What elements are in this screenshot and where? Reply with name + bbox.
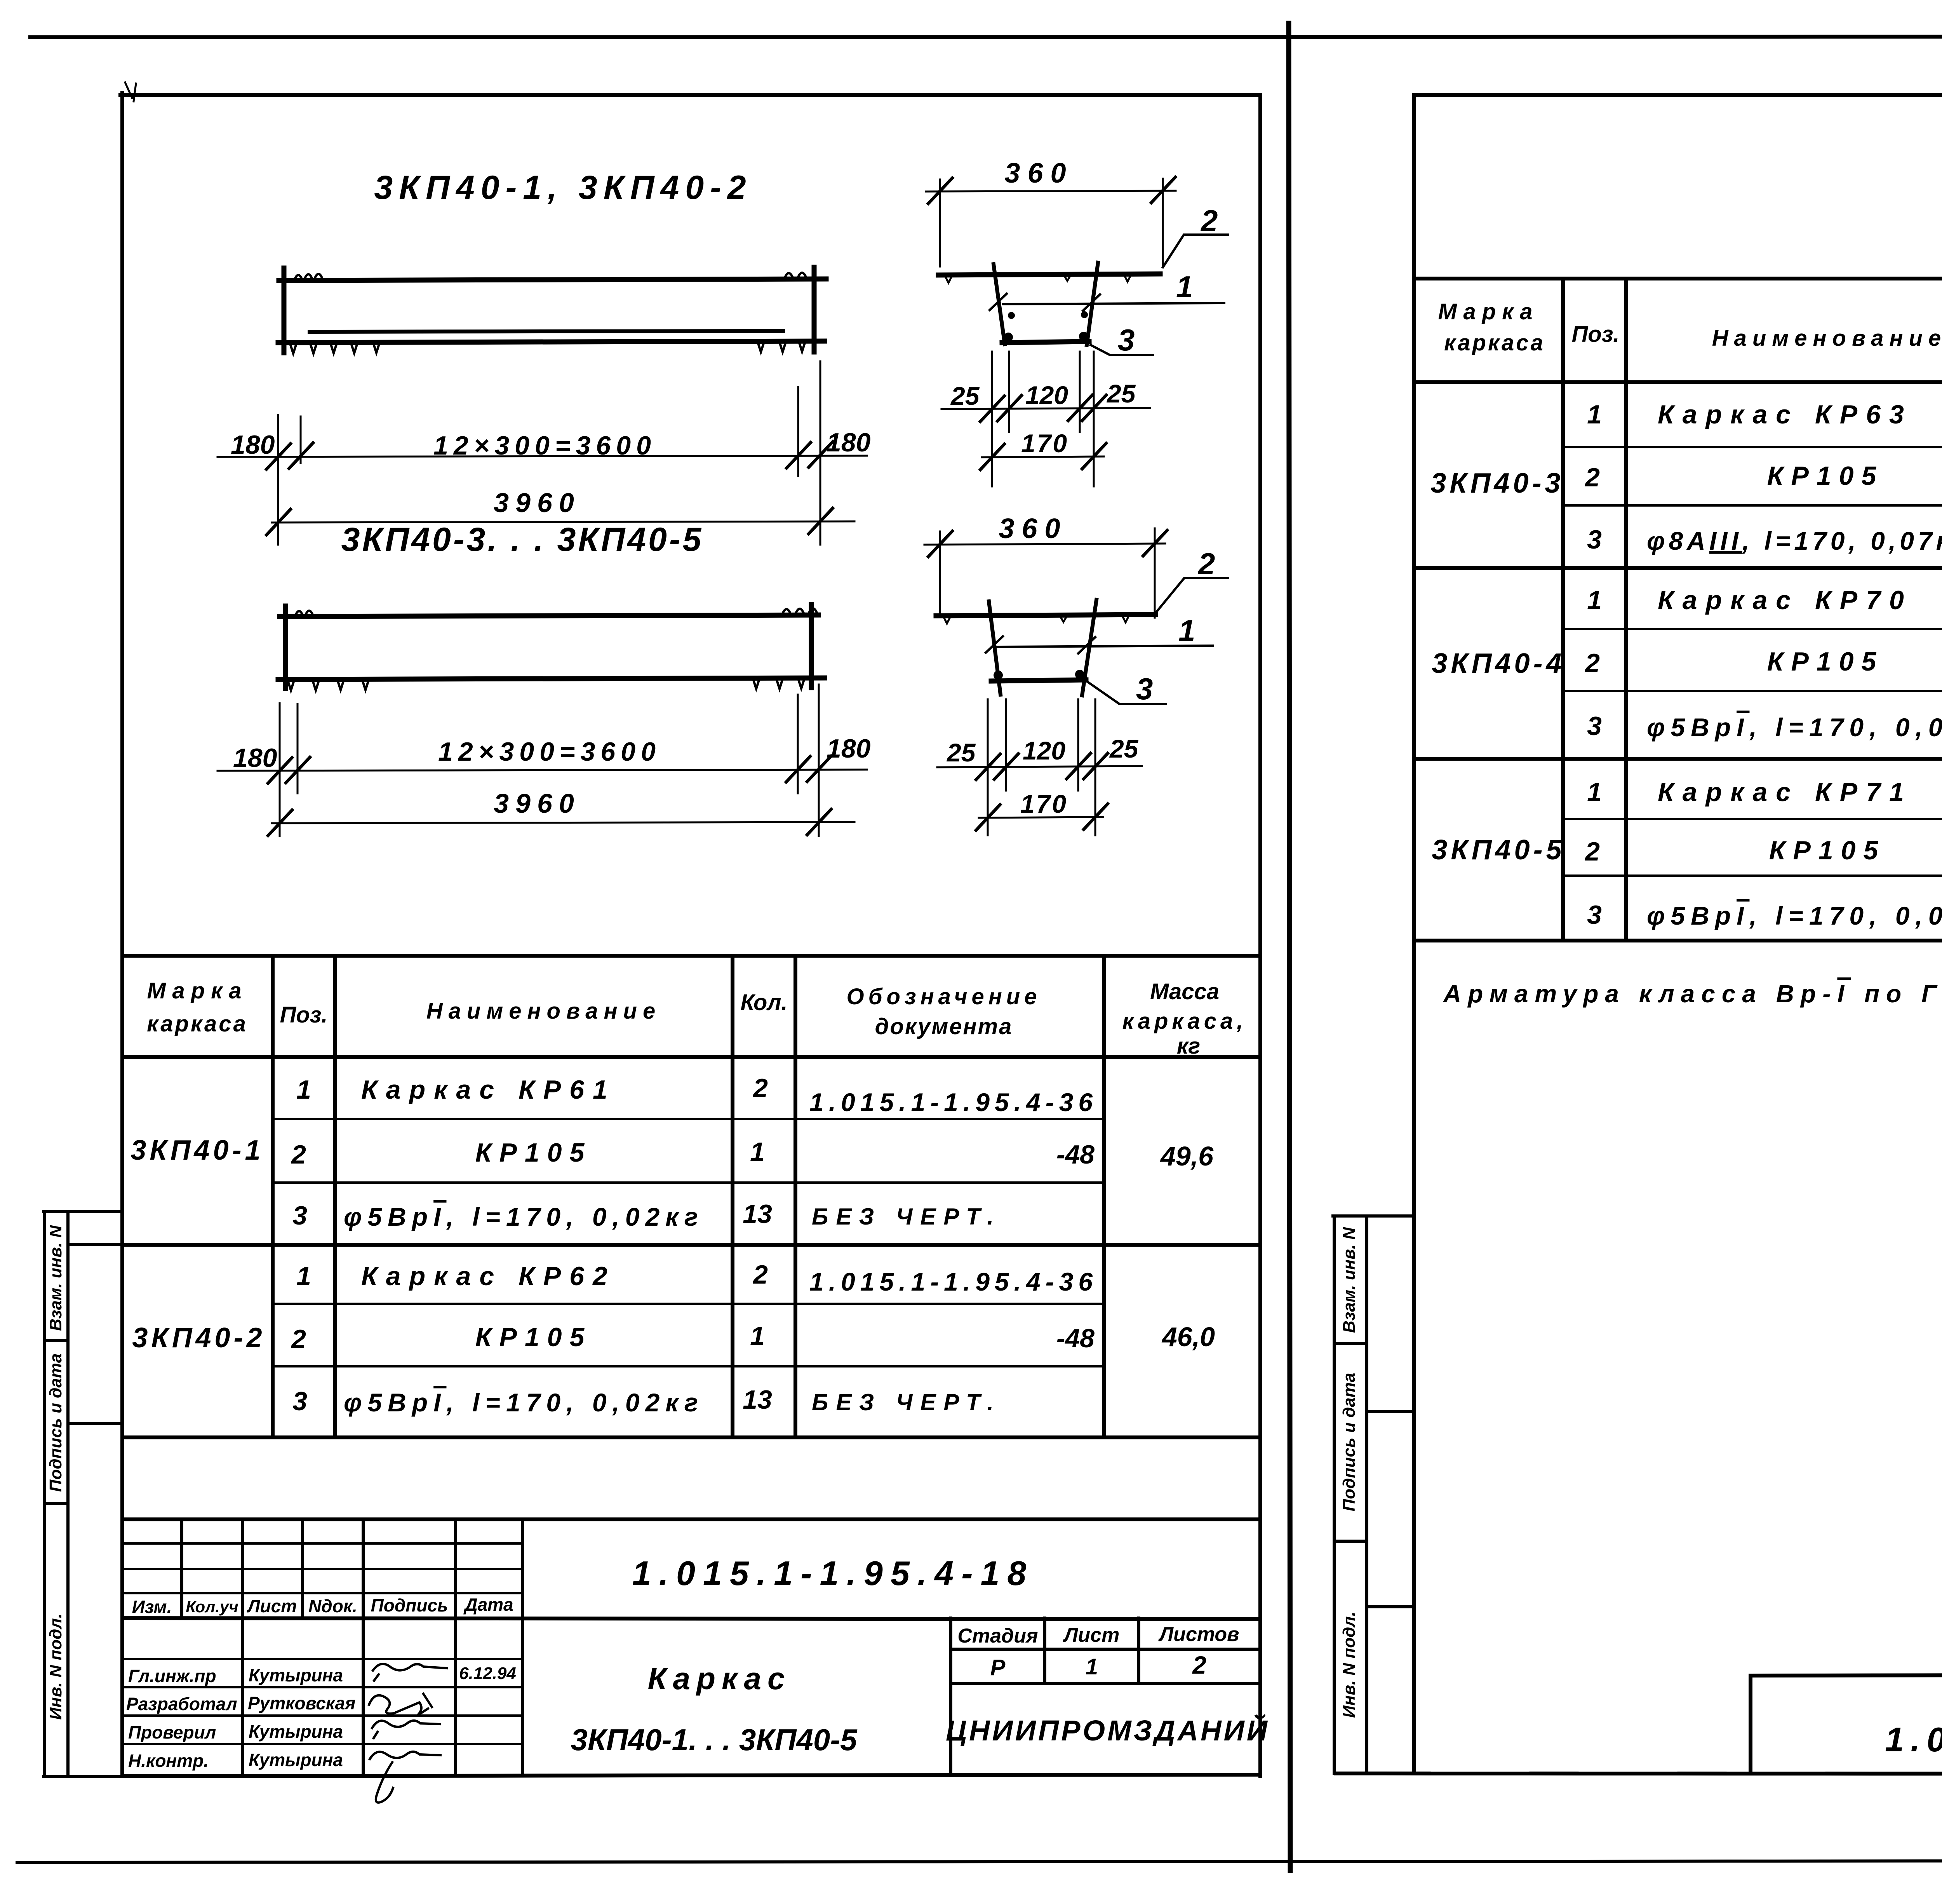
beam2 bottom chord [278, 678, 825, 679]
svg-text:Гл.инж.пр: Гл.инж.пр [128, 1666, 216, 1686]
leg hatch ticks [986, 636, 1095, 653]
svg-text:Кутырина: Кутырина [249, 1721, 343, 1742]
label 1 leader [1003, 303, 1224, 304]
svg-text:Марка: Марка [1438, 299, 1538, 324]
svg-text:Каркас КР61: Каркас КР61 [361, 1075, 616, 1104]
svg-text:1.015.1-1.95.4-18: 1.015.1-1.95.4-18 [1885, 1720, 1942, 1759]
svg-text:180: 180 [231, 430, 275, 460]
right table inner row lines [1563, 447, 1942, 876]
weld bumps on top chord [295, 273, 806, 278]
svg-text:КР105: КР105 [475, 1322, 592, 1352]
svg-text:1: 1 [1178, 613, 1195, 648]
svg-text:Каркас КР70: Каркас КР70 [1658, 585, 1912, 615]
svg-text:2: 2 [752, 1073, 768, 1103]
svg-text:1: 1 [1587, 777, 1602, 807]
left margin strip boxes [44, 1211, 122, 1777]
svg-text:Инв. N подл.: Инв. N подл. [1340, 1611, 1359, 1718]
svg-text:Поз.: Поз. [280, 1002, 328, 1028]
svg-text:документа: документа [875, 1014, 1013, 1039]
svg-text:Марка: Марка [147, 978, 247, 1003]
svg-text:3960: 3960 [494, 488, 581, 518]
section1 flange weld marks [945, 275, 1131, 283]
weld bumps on beam2 top chord [296, 608, 816, 614]
svg-text:Рутковская: Рутковская [248, 1693, 355, 1713]
svg-text:1: 1 [1587, 585, 1602, 615]
svg-text:12×300=3600: 12×300=3600 [438, 737, 661, 766]
svg-text:3КП40-1: 3КП40-1 [131, 1135, 264, 1166]
beam elevation ЗКП40-3..5: top chord [280, 615, 818, 617]
svg-text:кг: кг [1177, 1033, 1200, 1059]
section1 dim line 25|120|25 [941, 408, 1150, 409]
svg-text:2: 2 [1200, 204, 1218, 238]
section2 bottom chord (pos.3) [991, 680, 1086, 681]
section1 dim line 360 [926, 191, 1176, 192]
svg-text:Nдок.: Nдок. [308, 1596, 357, 1616]
svg-text:Наименование: Наименование [426, 998, 661, 1024]
svg-text:2: 2 [752, 1260, 768, 1289]
svg-text:Каркас КР63: Каркас КР63 [1658, 400, 1912, 429]
svg-text:φ8АIII, l=170, 0,07кг: φ8АIII, l=170, 0,07кг [1647, 526, 1942, 555]
svg-text:2: 2 [1584, 648, 1600, 678]
svg-text:Р: Р [990, 1655, 1006, 1680]
svg-text:2: 2 [1584, 463, 1600, 492]
svg-text:170: 170 [1020, 789, 1068, 818]
leg hatch ticks [990, 294, 1100, 311]
svg-text:БЕЗ ЧЕРТ.: БЕЗ ЧЕРТ. [812, 1389, 1001, 1415]
svg-text:Каркас: Каркас [647, 1661, 791, 1696]
svg-text:Поз.: Поз. [1572, 322, 1620, 347]
svg-text:1.015.1-1.95.4-36: 1.015.1-1.95.4-36 [809, 1267, 1098, 1296]
svg-text:3КП40-5: 3КП40-5 [1432, 834, 1565, 866]
svg-text:3КП40-3: 3КП40-3 [1430, 468, 1564, 499]
section2 right leg (pos.1) [1082, 600, 1096, 695]
svg-text:Кутырина: Кутырина [249, 1750, 343, 1770]
svg-text:Подпись: Подпись [371, 1595, 448, 1615]
svg-text:3: 3 [1587, 900, 1602, 930]
svg-text:3: 3 [1587, 525, 1602, 554]
svg-text:360: 360 [1004, 158, 1073, 189]
svg-text:Лист: Лист [247, 1596, 297, 1616]
left page frame [120, 93, 124, 1776]
section1 bottom chord (pos.3) [1002, 341, 1089, 343]
svg-text:12×300=3600: 12×300=3600 [433, 431, 656, 460]
dimension line 3960 [272, 521, 854, 523]
svg-text:46,0: 46,0 [1161, 1322, 1215, 1352]
section2 lower extension lines [987, 699, 989, 835]
svg-text:1: 1 [1176, 270, 1193, 304]
dimension extension lines beam2 [279, 703, 281, 836]
svg-text:3КП40-2: 3КП40-2 [132, 1322, 265, 1354]
right spec table outline [1414, 279, 1942, 941]
svg-text:Кол.: Кол. [740, 990, 787, 1015]
svg-text:1: 1 [750, 1137, 765, 1167]
svg-text:2: 2 [291, 1140, 306, 1169]
section1 top flange (pos.2) [938, 274, 1160, 275]
svg-text:φ5ВрI, l=170, 0,02кг: φ5ВрI, l=170, 0,02кг [1647, 901, 1942, 930]
svg-text:1: 1 [296, 1261, 311, 1291]
Стадия table lines [951, 1649, 1260, 1683]
beam2 left end bar [283, 606, 288, 688]
svg-text:Подпись и дата: Подпись и дата [46, 1354, 65, 1492]
svg-text:Лист: Лист [1063, 1624, 1120, 1646]
section2 dim line 360 [924, 544, 1165, 545]
svg-text:БЕЗ ЧЕРТ.: БЕЗ ЧЕРТ. [812, 1204, 1001, 1230]
right page frame [1412, 95, 1416, 1773]
beam2 dimension line 180|3600|180 [218, 770, 867, 771]
svg-text:13: 13 [743, 1385, 772, 1414]
svg-text:φ5ВрI, l=170, 0,02кг: φ5ВрI, l=170, 0,02кг [344, 1202, 704, 1231]
section2 dim line 170 [979, 817, 1103, 818]
title block vertical lines [182, 1519, 1139, 1775]
right margin strip boxes [1333, 1216, 1414, 1773]
svg-text:Арматура класса Вр-I по ГОСТ67: Арматура класса Вр-I по ГОСТ6727-80 [1443, 980, 1942, 1008]
svg-text:Проверил: Проверил [128, 1722, 216, 1742]
svg-text:1: 1 [296, 1075, 311, 1104]
svg-text:Кол.уч: Кол.уч [186, 1597, 238, 1616]
beam right end bar [812, 267, 817, 352]
svg-text:каркаса,: каркаса, [1122, 1009, 1247, 1034]
dimension extension lines beam1 [277, 415, 279, 545]
svg-text:Подпись и дата: Подпись и дата [1340, 1373, 1359, 1512]
svg-text:Каркас КР71: Каркас КР71 [1658, 777, 1912, 807]
dimension line 180|3600|180 [218, 456, 867, 457]
svg-text:φ5ВрI, l=170, 0,02кг: φ5ВрI, l=170, 0,02кг [344, 1388, 704, 1417]
svg-text:3: 3 [292, 1201, 307, 1230]
svg-text:3: 3 [1118, 323, 1135, 357]
title block horizontal lines [122, 1519, 1260, 1776]
svg-text:Изм.: Изм. [132, 1597, 172, 1617]
dim ticks [266, 442, 833, 469]
svg-text:Листов: Листов [1158, 1623, 1239, 1646]
beam left end bar [282, 268, 287, 353]
label 2 leader [1155, 578, 1228, 613]
svg-text:2: 2 [1584, 837, 1600, 866]
top scan edge line [30, 37, 1942, 37]
svg-text:Разработал: Разработал [126, 1694, 237, 1714]
svg-text:Взам. инв. N: Взам. инв. N [1340, 1227, 1359, 1333]
svg-text:3КП40-1, 3КП40-2: 3КП40-1, 3КП40-2 [374, 169, 752, 206]
section2 dim line 25|120|25 [937, 766, 1142, 767]
beam bottom chord [278, 341, 825, 343]
svg-text:2: 2 [291, 1324, 306, 1354]
svg-text:3КП40-3. . . 3КП40-5: 3КП40-3. . . 3КП40-5 [341, 521, 704, 558]
corner weld dots [994, 671, 1003, 680]
svg-text:1: 1 [1086, 1654, 1098, 1679]
svg-text:3960: 3960 [494, 788, 581, 819]
svg-text:КР105: КР105 [1767, 647, 1884, 676]
corner weld dots [1004, 333, 1013, 342]
weld ticks under bottom chord [291, 343, 805, 354]
beam middle rebar line [310, 331, 783, 332]
signatures scribbles [373, 1664, 447, 1681]
svg-text:1.015.1-1.95.4-36: 1.015.1-1.95.4-36 [809, 1088, 1098, 1117]
label 3 leader [1091, 345, 1153, 355]
label 3 leader [1088, 682, 1166, 704]
svg-text:3КП40-1. . . 3КП40-5: 3КП40-1. . . 3КП40-5 [571, 1723, 858, 1757]
vertical page divider [1289, 23, 1290, 1871]
beam2 dimension line 3960 [272, 822, 854, 823]
svg-text:120: 120 [1023, 736, 1065, 765]
svg-text:Стадия: Стадия [957, 1625, 1038, 1647]
svg-text:ЦНИИПРОМЗДАНИЙ: ЦНИИПРОМЗДАНИЙ [946, 1714, 1270, 1747]
section2 top flange (pos.2) [936, 615, 1155, 616]
svg-text:φ5ВрI, l=170, 0,02кг: φ5ВрI, l=170, 0,02кг [1647, 713, 1942, 742]
svg-text:каркаса: каркаса [147, 1011, 248, 1036]
svg-text:2: 2 [1192, 1651, 1206, 1679]
svg-text:1: 1 [750, 1321, 765, 1351]
svg-text:25: 25 [1106, 379, 1136, 408]
svg-text:360: 360 [999, 513, 1067, 544]
svg-text:25: 25 [1109, 734, 1139, 763]
svg-text:Масса: Масса [1150, 979, 1219, 1004]
small title box [1751, 1674, 1942, 1774]
svg-text:1: 1 [1587, 400, 1602, 429]
svg-text:3: 3 [292, 1387, 307, 1416]
svg-text:13: 13 [743, 1199, 772, 1229]
svg-text:25: 25 [950, 381, 980, 410]
section1 dim line 170 [982, 456, 1104, 457]
section2 left leg (pos.1) [989, 601, 1001, 695]
svg-text:2: 2 [1197, 547, 1215, 581]
svg-text:6.12.94: 6.12.94 [459, 1664, 516, 1683]
svg-text:Наименование: Наименование [1712, 326, 1942, 351]
corner pen tick [125, 82, 136, 101]
svg-text:КР105: КР105 [1767, 461, 1884, 491]
svg-text:180: 180 [827, 428, 871, 457]
svg-text:Н.контр.: Н.контр. [128, 1751, 209, 1771]
section2 flange weld marks [944, 616, 1129, 624]
svg-text:-48: -48 [1056, 1140, 1095, 1169]
svg-text:Кутырина: Кутырина [249, 1665, 343, 1685]
left table inner row lines [273, 1119, 1104, 1366]
label 2 leader [1163, 235, 1228, 267]
svg-text:1.015.1-1.95.4-18: 1.015.1-1.95.4-18 [632, 1554, 1034, 1592]
svg-text:49,6: 49,6 [1160, 1141, 1214, 1171]
svg-text:3: 3 [1587, 711, 1602, 741]
section1 lower extension lines [991, 352, 993, 486]
svg-text:3КП40-4: 3КП40-4 [1432, 648, 1565, 679]
svg-text:25: 25 [946, 738, 976, 767]
svg-text:-48: -48 [1056, 1324, 1095, 1353]
svg-text:180: 180 [233, 743, 277, 773]
svg-text:КР105: КР105 [475, 1138, 592, 1167]
svg-text:180: 180 [827, 734, 871, 763]
svg-text:Обозначение: Обозначение [847, 984, 1041, 1009]
svg-text:120: 120 [1025, 381, 1068, 409]
section1 left leg (pos.1) [994, 264, 1005, 344]
bottom scan edge line [17, 1860, 1942, 1862]
svg-text:каркаса: каркаса [1444, 330, 1545, 355]
svg-text:Инв. N подл.: Инв. N подл. [46, 1613, 65, 1720]
svg-text:170: 170 [1021, 429, 1068, 458]
weld ticks under beam2 bottom chord [288, 680, 804, 690]
beam2 right end bar [809, 604, 814, 688]
beam elevation ЗКП40-1/2: top chord [279, 279, 826, 280]
svg-text:Взам. инв. N: Взам. инв. N [46, 1225, 65, 1331]
svg-text:КР105: КР105 [1769, 836, 1886, 865]
label 1 leader [997, 646, 1213, 647]
svg-text:Дата: Дата [463, 1594, 513, 1615]
svg-text:3: 3 [1136, 672, 1153, 706]
section1 right leg (pos.1) [1087, 263, 1098, 345]
left spec table outline [122, 956, 1260, 1437]
svg-text:Каркас КР62: Каркас КР62 [361, 1261, 616, 1291]
